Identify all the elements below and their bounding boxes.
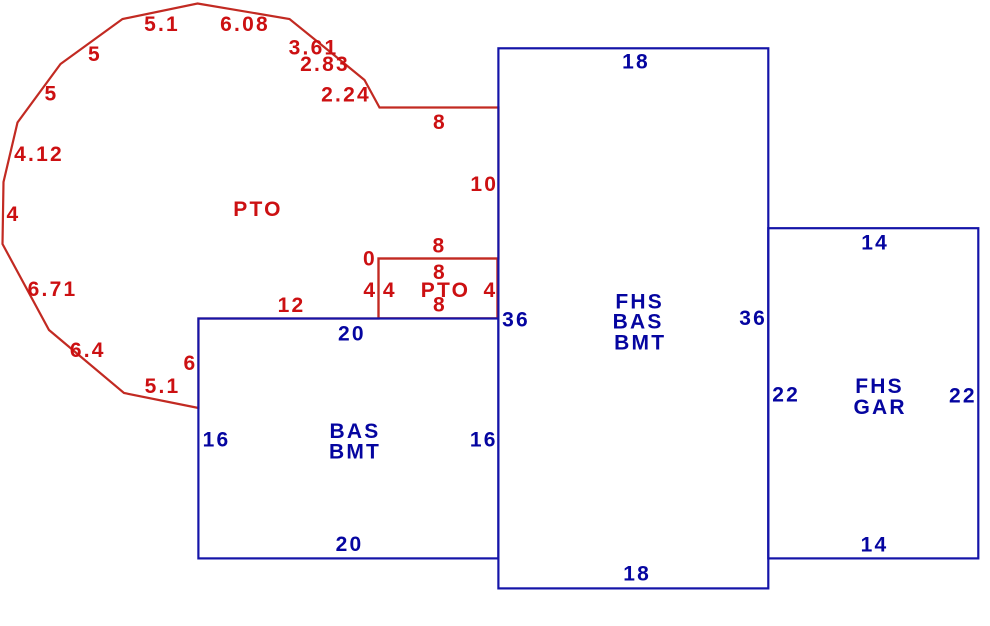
svg-text:22: 22 [772,384,800,407]
room FHS GAR rectangle [768,228,978,558]
room FHS BAS BMT rectangle [498,48,768,588]
svg-text:22: 22 [949,385,977,408]
svg-text:20: 20 [338,323,366,346]
svg-text:8: 8 [433,235,447,258]
svg-text:5: 5 [88,43,102,66]
svg-text:4: 4 [7,203,21,226]
svg-text:5.1: 5.1 [144,13,180,36]
svg-text:BMT: BMT [329,441,381,464]
svg-text:4: 4 [383,279,397,302]
svg-text:5: 5 [45,83,59,106]
svg-text:20: 20 [336,533,364,556]
svg-text:2.83: 2.83 [300,53,350,76]
svg-text:4.12: 4.12 [14,143,64,166]
patio PTO small rectangle [379,259,498,319]
svg-text:8: 8 [433,294,447,317]
svg-text:36: 36 [502,308,530,331]
svg-text:6.08: 6.08 [220,13,270,36]
svg-text:8: 8 [433,111,447,134]
svg-text:14: 14 [861,231,889,254]
svg-text:36: 36 [739,307,767,330]
svg-text:BAS: BAS [613,311,664,334]
svg-text:16: 16 [203,429,231,452]
svg-text:14: 14 [861,534,889,557]
svg-text:4: 4 [363,279,377,302]
svg-text:PTO: PTO [233,198,282,221]
svg-text:18: 18 [622,51,650,74]
svg-text:GAR: GAR [853,396,906,419]
svg-text:6.71: 6.71 [28,278,78,301]
svg-text:0: 0 [363,248,377,271]
patio PTO polygon outline [3,4,499,409]
svg-text:6.4: 6.4 [70,339,106,362]
svg-text:4: 4 [483,279,497,302]
svg-text:6: 6 [184,352,198,375]
svg-text:12: 12 [278,294,306,317]
svg-text:10: 10 [470,173,498,196]
svg-text:16: 16 [470,429,498,452]
room BAS BMT rectangle [198,319,498,559]
svg-text:BAS: BAS [330,420,381,443]
svg-text:5.1: 5.1 [145,375,181,398]
svg-text:FHS: FHS [855,375,904,398]
svg-text:2.24: 2.24 [321,84,371,107]
svg-text:18: 18 [623,562,651,585]
svg-text:BMT: BMT [614,331,666,354]
